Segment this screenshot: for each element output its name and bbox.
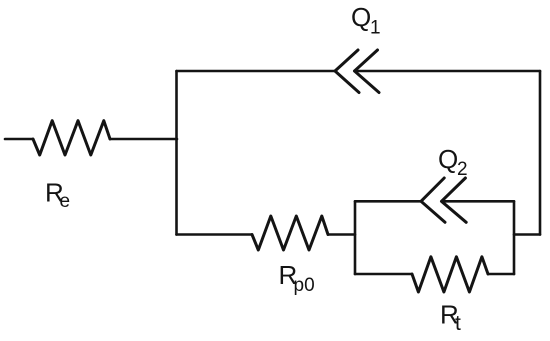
resistor Rp0 (zigzag) — [252, 216, 328, 250]
svg-text:Q: Q — [438, 144, 458, 174]
svg-text:p0: p0 — [294, 275, 315, 296]
svg-text:1: 1 — [370, 18, 381, 39]
label Re — [45, 178, 70, 212]
svg-text:Q: Q — [351, 2, 371, 32]
wire: Rt to inner box right vertical — [488, 273, 514, 276]
wire: top branch, left segment — [177, 70, 336, 73]
label Rp0 — [279, 260, 315, 296]
resistor Re (zigzag) — [33, 121, 110, 155]
wire: inner box left vertical — [354, 201, 357, 274]
label Q2 — [438, 144, 468, 180]
CPE Q1 (double chevron) — [335, 50, 379, 93]
wire: right connector from inner box to outer loop — [514, 233, 540, 236]
wire: inner box bottom-left segment — [355, 273, 412, 276]
svg-text:2: 2 — [457, 159, 468, 180]
CPE Q2 (double chevron) — [421, 178, 466, 222]
label Rt — [440, 299, 461, 335]
resistor Rt (zigzag) — [412, 257, 488, 292]
wire: bottom branch, left segment — [177, 233, 253, 236]
wire: inner box right vertical — [513, 201, 516, 274]
label Q1 — [351, 2, 381, 39]
wire: right vertical of outer parallel loop — [539, 71, 542, 235]
wire: left input lead — [5, 138, 33, 141]
wire: Rp0 to inner parallel box — [328, 233, 355, 236]
wire: left vertical of outer parallel loop (node A) — [175, 71, 178, 235]
wire: top branch, right segment — [355, 70, 541, 73]
wire: inner box top-right segment — [442, 200, 515, 203]
wire: Re to node A — [110, 138, 177, 141]
svg-text:t: t — [455, 312, 461, 335]
svg-text:e: e — [60, 191, 71, 212]
wire: inner box top-left segment — [355, 200, 421, 203]
